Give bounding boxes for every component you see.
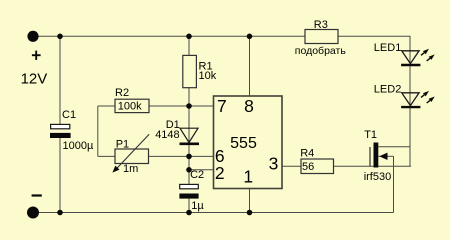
wire bottom rail <box>33 212 394 214</box>
svg-text:8: 8 <box>244 96 254 116</box>
resistor R2 <box>115 87 149 113</box>
svg-text:T1: T1 <box>364 129 377 141</box>
node minus terminal <box>27 207 39 219</box>
svg-text:555: 555 <box>230 135 257 152</box>
svg-text:подобрать: подобрать <box>295 45 347 57</box>
node junction bottom rail at pin1 <box>247 210 253 216</box>
svg-text:1µ: 1µ <box>191 200 204 212</box>
wire C2 to bottom rail <box>188 199 190 213</box>
svg-text:R3: R3 <box>314 19 328 31</box>
svg-text:irf530: irf530 <box>364 171 392 183</box>
svg-text:R4: R4 <box>300 147 314 159</box>
svg-text:3: 3 <box>269 153 279 173</box>
svg-text:4148: 4148 <box>155 129 179 141</box>
wire pin2 horizontal <box>189 169 214 171</box>
label minus <box>32 194 42 196</box>
resistor R3 <box>295 19 347 57</box>
label + <box>32 51 41 60</box>
svg-text:12V: 12V <box>21 71 48 88</box>
LED2 <box>374 84 435 108</box>
wire drain stub <box>378 146 410 148</box>
op-amp U1 555 timer box <box>214 96 283 189</box>
potentiometer P1 <box>112 134 149 175</box>
svg-text:1: 1 <box>243 167 253 187</box>
capacitor C1 <box>50 109 94 152</box>
LED1 <box>374 42 435 65</box>
wire R4 to gate and through to LED vertical <box>333 165 411 167</box>
wire top rail right segment <box>338 35 411 37</box>
wire source arrow line <box>378 155 393 157</box>
svg-text:2: 2 <box>215 163 225 183</box>
svg-text:56: 56 <box>302 161 314 173</box>
wire P1 left lead <box>98 155 115 157</box>
wire left vertical lower (from C1) <box>59 138 61 213</box>
wire middle vertical to R1 <box>188 36 190 55</box>
wire R2-P1 left vertical <box>97 106 99 156</box>
wire pin6 horizontal <box>149 155 214 157</box>
LED2 arrows <box>421 95 424 98</box>
substrate arrow head <box>379 153 387 160</box>
capacitor C2 <box>179 169 204 212</box>
svg-text:P1: P1 <box>116 139 129 151</box>
svg-text:C2: C2 <box>190 169 204 181</box>
wire pin3 to R4 <box>282 165 301 167</box>
svg-text:R2: R2 <box>115 87 129 99</box>
svg-text:LED2: LED2 <box>374 84 402 96</box>
svg-text:LED1: LED1 <box>374 42 402 54</box>
gate plate <box>369 147 371 167</box>
svg-text:100k: 100k <box>118 101 142 113</box>
wire R2 left lead <box>98 105 115 107</box>
svg-text:1000µ: 1000µ <box>63 140 94 152</box>
wire pin8 vertical <box>249 36 251 96</box>
wire source vertical to bottom rail <box>393 156 395 212</box>
node junction top rail at C1 <box>57 34 63 40</box>
svg-text:C1: C1 <box>62 109 76 121</box>
wire LED chain vertical <box>409 36 411 166</box>
resistor R1 <box>183 55 217 87</box>
svg-text:7: 7 <box>217 96 227 116</box>
wire top rail left segment <box>33 35 305 37</box>
wire pin7 horizontal <box>149 105 214 107</box>
node junction pin2 line <box>186 167 192 173</box>
node junction top rail at pin8 <box>247 34 253 40</box>
wire pin1 vertical <box>249 189 251 213</box>
node junction top rail at R1 <box>186 34 192 40</box>
node junction bottom rail at C2 <box>186 210 192 216</box>
node plus terminal <box>27 31 38 42</box>
node junction pin6 line <box>186 154 192 160</box>
svg-text:10k: 10k <box>199 70 217 82</box>
LED1 arrows <box>421 53 424 56</box>
wire R1 to pin7 node, through D1, to C2 <box>188 88 190 185</box>
resistor R4 <box>300 147 333 173</box>
channel bar <box>374 143 379 168</box>
svg-text:1m: 1m <box>123 163 138 175</box>
transistor T1 irf530 MOSFET <box>364 129 392 183</box>
node junction bottom rail at C1 <box>57 210 63 216</box>
wire left vertical upper (to C1) <box>59 36 61 124</box>
diode D1 <box>155 119 199 144</box>
node junction pin7 line <box>186 103 192 109</box>
